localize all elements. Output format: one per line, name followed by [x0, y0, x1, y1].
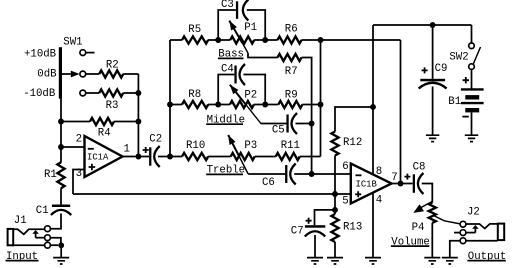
svg-text:C9: C9 [435, 63, 448, 75]
capacitor C4 right wire [244, 75, 266, 105]
svg-text:R7: R7 [285, 66, 298, 78]
node 0dB contact [80, 71, 86, 77]
potentiometer P4 wiper line [419, 202, 432, 209]
ground R13 [327, 258, 343, 264]
resistor R5 [182, 36, 208, 43]
capacitor C8 plus [404, 174, 410, 180]
capacitor C3 plate [236, 1, 238, 19]
wire P1 to R6 [254, 39, 277, 41]
battery B1 plate long top [461, 88, 484, 90]
svg-text:C8: C8 [413, 161, 426, 173]
connector J2 tip contact [466, 224, 498, 229]
wire R11 right [300, 156, 321, 158]
connector J2 tip terminal [460, 221, 466, 227]
wire SW1 wiper [62, 73, 71, 75]
node C5 junction [309, 121, 315, 127]
wire bottom rail to pin 5 [73, 193, 351, 195]
wire J2 sleeve to ground [450, 241, 460, 257]
label Treble underline [206, 173, 243, 175]
battery B1 plate short top [465, 95, 479, 99]
svg-text:C7: C7 [291, 225, 304, 237]
svg-text:P4: P4 [412, 222, 425, 234]
svg-text:B1: B1 [448, 96, 461, 108]
wire pin 3 [73, 170, 85, 195]
resistor R11 [276, 153, 300, 160]
ground C7 [307, 258, 323, 264]
svg-text:+10dB: +10dB [24, 48, 57, 60]
svg-text:R5: R5 [188, 24, 201, 36]
wire C6 right [294, 173, 311, 175]
svg-text:R6: R6 [285, 23, 298, 35]
resistor R8 [182, 101, 208, 108]
wire R12 bottom [334, 156, 336, 215]
capacitor C1 curved plate [51, 210, 71, 215]
node -10dB contact [80, 90, 86, 96]
svg-text:2: 2 [76, 133, 82, 145]
capacitor C4 curved plate [240, 64, 246, 85]
node R3 junction [135, 90, 141, 96]
potentiometer P1 arrowhead [229, 21, 237, 31]
resistor R12 [331, 132, 338, 156]
svg-text:0dB: 0dB [37, 69, 57, 81]
svg-text:R1: R1 [44, 169, 57, 181]
wire R7 to C5 column [302, 58, 312, 175]
svg-text:7: 7 [391, 172, 397, 184]
connector J1 switch arrowhead [32, 230, 39, 234]
svg-text:IC1B: IC1B [356, 179, 377, 189]
capacitor C3 left wire [218, 10, 236, 40]
svg-text:P3: P3 [244, 140, 257, 152]
node R8 left junction [167, 102, 173, 108]
potentiometer P3 [231, 153, 255, 160]
battery B1 plate short bottom [465, 108, 479, 112]
wire P3 wiper to C6 [248, 173, 285, 175]
resistor R2 [99, 70, 123, 77]
wire P2 to R9 [254, 104, 279, 106]
wire R2 to column [123, 73, 138, 75]
wire R13 to ground [334, 242, 336, 257]
wire R4 row right [114, 121, 138, 123]
svg-text:C2: C2 [149, 133, 162, 145]
wire R9 right [302, 104, 320, 106]
wire B1 to ground [471, 112, 473, 135]
svg-text:5: 5 [342, 195, 348, 207]
wire SW2 to battery [471, 69, 473, 88]
op-amp U1 IC1A [85, 136, 123, 177]
connector J1 tip contact [13, 229, 44, 234]
svg-text:IC1A: IC1A [87, 152, 109, 162]
connector J2 body [498, 224, 504, 241]
svg-text:J1: J1 [14, 215, 27, 227]
connector J2 switch arrow [474, 228, 476, 232]
label Bass underline [218, 57, 244, 59]
wire IC1B output [392, 183, 413, 185]
potentiometer P1 [230, 36, 254, 43]
capacitor C7 curved plate [305, 231, 325, 236]
capacitor C7 plus [306, 218, 312, 224]
node J1 ground junction [58, 242, 64, 248]
wire R6 right [302, 39, 321, 41]
svg-text:6: 6 [342, 161, 348, 173]
capacitor C9 plus [422, 67, 428, 73]
wire C6 to pin 6 [312, 173, 351, 175]
capacitor C9 curved plate [419, 83, 447, 89]
svg-text:1: 1 [124, 144, 130, 156]
svg-text:R10: R10 [186, 140, 205, 152]
svg-text:R3: R3 [106, 100, 119, 112]
svg-text:R8: R8 [188, 89, 201, 101]
potentiometer P4 [429, 203, 436, 223]
capacitor C4 left wire [218, 75, 234, 105]
capacitor C2 curved plate [154, 146, 160, 167]
wire J1 sleeve to ground [50, 244, 58, 246]
capacitor C5 plate [286, 115, 288, 133]
capacitor C8 curved plate [418, 173, 424, 194]
resistor R13 [331, 214, 338, 242]
wire C8 to P4 [422, 184, 433, 203]
potentiometer P4 arrowhead [413, 204, 424, 213]
node tone input junction [167, 154, 173, 160]
capacitor C5 curved plate [292, 113, 298, 134]
wire +10dB stub [86, 52, 95, 54]
switch SW2 top contact [469, 43, 475, 49]
capacitor C3 curved plate [243, 0, 249, 21]
connector J1 sleeve terminal [45, 242, 51, 248]
wire R4 row left [61, 121, 90, 123]
svg-text:R9: R9 [285, 89, 298, 101]
svg-text:R12: R12 [343, 137, 362, 149]
label Volume underline [391, 245, 429, 247]
capacitor C4 plate [234, 66, 236, 84]
wire P2 wiper to C5 [261, 123, 286, 125]
node R4 right junction [135, 119, 141, 125]
node +10dB contact [80, 50, 86, 56]
wire C9 top [432, 25, 434, 79]
svg-text:SW1: SW1 [63, 37, 82, 49]
op-amp IC1B minus [356, 174, 362, 176]
svg-text:-10dB: -10dB [23, 88, 56, 100]
capacitor C2 plate [149, 147, 151, 165]
potentiometer P2 arrowhead [230, 85, 239, 95]
node R4 left junction [58, 119, 64, 125]
wire R10 to P3 [208, 156, 231, 158]
node R12 bottom junction [332, 191, 338, 197]
svg-text:R4: R4 [98, 127, 111, 139]
op-amp IC1A minus [88, 148, 94, 150]
wire pin 8 supply column [372, 25, 374, 174]
wire R3 to column [123, 92, 138, 94]
wire middle row left [170, 104, 182, 106]
node R12 top junction [370, 104, 376, 110]
wire R5 to P1 [208, 39, 230, 41]
resistor R12 top wire [335, 107, 373, 132]
wire SW2 top [471, 25, 473, 43]
wire J2 sleeve to body [466, 240, 498, 242]
wire C1 to jack [50, 214, 61, 229]
svg-text:P2: P2 [244, 89, 257, 101]
ground B1 [465, 135, 478, 141]
wire C9 to ground [432, 87, 434, 136]
connector J2 switch terminal [460, 230, 466, 236]
wire P4 wiper to J2 [435, 216, 461, 224]
ground P4 [424, 258, 440, 264]
connector J2 switch arrowhead [472, 225, 479, 229]
connector J1 body [8, 229, 14, 245]
node R6 junction [318, 37, 324, 43]
wire feedback column [137, 74, 139, 157]
wire treble row R10 [182, 153, 208, 160]
wire P3 to R11 [255, 156, 276, 158]
wire C7 tap [315, 210, 336, 225]
capacitor C3 right wire [247, 10, 265, 40]
label Input underline [6, 260, 39, 262]
wire feedback column pin7 [400, 40, 402, 184]
capacitor C8 plate [413, 174, 415, 193]
svg-text:R11: R11 [281, 140, 300, 152]
op-amp IC1B plus [355, 191, 361, 197]
potentiometer P1 wiper line [229, 21, 242, 43]
connector J1 tip terminal [45, 226, 51, 232]
node middle left junction [215, 102, 221, 108]
node bass right junction [262, 37, 268, 43]
wire pin2 [61, 146, 85, 148]
connector J1 switch arrow [35, 233, 37, 237]
node pin 7 junction [398, 181, 404, 187]
wire bass row left [170, 39, 182, 41]
svg-text:SW2: SW2 [449, 52, 468, 64]
ground C9 [426, 135, 439, 141]
wire P1 wiper to R7 [248, 53, 278, 58]
battery B1 minus [462, 116, 468, 118]
capacitor C1 plate [52, 205, 70, 208]
node IC1A pin2 junction [58, 144, 64, 150]
capacitor C6 curved plate [290, 164, 296, 185]
svg-text:C5: C5 [272, 125, 285, 137]
wire P4 to ground [431, 223, 433, 257]
svg-text:C4: C4 [221, 63, 234, 75]
svg-text:8: 8 [376, 166, 382, 178]
resistor R4 [90, 118, 114, 125]
svg-text:R2: R2 [106, 59, 119, 71]
potentiometer P2 wiper line [230, 85, 246, 105]
op-amp IC1A plus [89, 164, 96, 171]
battery B1 plus [463, 77, 469, 83]
resistor R9 [278, 101, 302, 108]
switch SW2 bottom contact [469, 64, 475, 70]
wire J1 switch [36, 237, 45, 239]
wire -10dB to R3 [86, 92, 99, 94]
svg-text:C1: C1 [36, 205, 49, 217]
connector J2 sleeve terminal [460, 238, 466, 244]
wire R8 to P2 [208, 104, 230, 106]
capacitor C7 plate [305, 225, 325, 228]
wire R1 to C1 [60, 188, 62, 204]
resistor R6 [278, 36, 302, 43]
label Output underline [467, 260, 505, 262]
node IC1A output junction [135, 154, 141, 160]
svg-text:J2: J2 [467, 207, 480, 219]
node C7 tap junction [332, 207, 338, 213]
wire 0dB to R2 [86, 73, 99, 75]
op-amp U2 IC1B [351, 164, 392, 204]
ground J2 [442, 258, 458, 264]
label Middle underline [206, 123, 243, 125]
battery B1 plate long bottom [461, 102, 484, 104]
ground IC1B pin 4 [365, 258, 381, 264]
switch SW2 lever [473, 47, 480, 64]
capacitor C9 plate [420, 79, 445, 82]
capacitor C6 plate [285, 165, 287, 183]
wire input column [60, 99, 62, 163]
node C9 supply junction [430, 22, 436, 28]
node bass left junction [215, 37, 221, 43]
potentiometer P3 arrowhead [228, 135, 235, 145]
wire J1 switch to ground [50, 238, 61, 243]
switch SW1 wiper arrow [71, 71, 80, 78]
node R9 junction [318, 102, 324, 108]
node C6 junction [309, 171, 315, 177]
svg-text:4: 4 [376, 194, 382, 206]
resistor R3 [99, 89, 123, 96]
svg-text:C6: C6 [262, 177, 275, 189]
wire supply rail [373, 24, 472, 26]
node middle right junction [262, 102, 268, 108]
resistor R7 [278, 54, 302, 61]
ground J1 [53, 245, 69, 264]
svg-text:C3: C3 [221, 0, 234, 11]
wire IC1A output [123, 156, 150, 158]
svg-text:P1: P1 [244, 22, 257, 34]
wire R6 to R11 column [320, 40, 322, 157]
capacitor C2 plus [143, 147, 149, 153]
connector J1 switch terminal [45, 235, 51, 241]
resistor R1 [57, 162, 64, 188]
connector J2 switch stub [454, 232, 460, 234]
switch SW1 body [59, 47, 62, 98]
wire C2 to R10 [158, 156, 182, 158]
svg-text:R13: R13 [343, 221, 362, 233]
wire bass row to feedback corner [321, 39, 401, 41]
wire C5 right [296, 123, 312, 125]
potentiometer P2 [230, 101, 254, 108]
potentiometer P3 wiper line [228, 135, 239, 157]
wire tone input column [169, 40, 171, 157]
wire J1 sleeve to body [13, 244, 44, 246]
wire J2 switch [466, 232, 475, 234]
wire pin 4 to ground [372, 193, 374, 257]
wire C7 to ground [314, 235, 316, 257]
